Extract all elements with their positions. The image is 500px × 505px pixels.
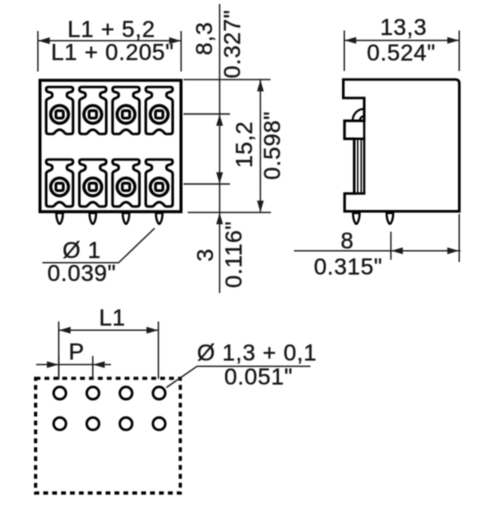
svg-text:L1 + 0.205": L1 + 0.205" — [51, 39, 174, 65]
side channel thin line 2 — [360, 140, 362, 193]
dimension L1+5,2 extension line left — [37, 31, 39, 72]
dimension 13,3 line — [344, 39, 459, 41]
terminal row1 pos4 — [146, 87, 173, 134]
arrow left of L1+5,2 — [38, 37, 50, 44]
arrow P pointing left — [93, 361, 105, 368]
dimension P extension right — [92, 356, 94, 380]
side pin 2 — [387, 213, 394, 224]
drill hole row2 pos2 — [87, 418, 99, 430]
leader line hole diameter — [166, 366, 310, 387]
svg-text:Ø 1,3 + 0,1: Ø 1,3 + 0,1 — [197, 339, 317, 365]
dimension 13,3 extension left — [343, 31, 345, 72]
drill hole row2 pos4 — [153, 418, 165, 430]
dimension L1 line — [59, 329, 159, 331]
dimension P extension left — [58, 355, 60, 380]
terminal row1 pos2 — [79, 87, 106, 134]
arrow right L1 — [147, 327, 159, 334]
arrow P pointing right — [47, 361, 59, 368]
dimension 8 line — [294, 250, 461, 252]
svg-text:8: 8 — [341, 227, 354, 253]
terminal row1 pos1 — [46, 87, 73, 134]
dimension 13,3 extension right — [458, 31, 460, 72]
dimension L1+5,2 extension line right — [180, 31, 182, 72]
dimension 8 extension pin — [390, 232, 392, 260]
pcb outline dashed — [36, 378, 181, 493]
dimension L1+5,2 line — [38, 40, 181, 42]
side pin 1 — [353, 213, 360, 224]
latch arc large — [353, 109, 365, 121]
arrow up to body bottom — [216, 213, 223, 225]
svg-text:0.116": 0.116" — [221, 221, 247, 288]
arrow left L1 — [59, 327, 71, 334]
dimension L1 extension right — [157, 322, 159, 379]
drill hole row1 pos4 — [153, 387, 165, 399]
solder pin 1 front — [56, 213, 63, 224]
terminal row2 pos3 — [113, 160, 140, 207]
terminal row2 pos2 — [79, 160, 106, 207]
svg-text:0.327": 0.327" — [219, 10, 245, 79]
svg-text:0.315": 0.315" — [314, 254, 383, 280]
terminal row1 pos3 — [113, 87, 140, 134]
svg-text:P: P — [69, 338, 85, 364]
drill hole row2 pos3 — [120, 418, 132, 430]
arrow down 15,2 — [257, 201, 264, 213]
arrow up 15,2 — [257, 80, 264, 92]
svg-text:0.039": 0.039" — [47, 260, 116, 286]
solder pin 4 front — [156, 213, 163, 224]
svg-text:0.598": 0.598" — [259, 111, 285, 180]
terminal row2 pos4 — [146, 160, 173, 207]
latch arc small — [360, 116, 364, 120]
side channel thin line 1 — [357, 140, 359, 193]
terminal row2 pos1 — [46, 160, 73, 207]
arrow right 13,3 — [447, 37, 459, 44]
upper tab bottom edge extension — [354, 138, 365, 140]
side inner wall line — [363, 121, 365, 194]
arrow left 8 — [391, 247, 403, 254]
arrow right of L1+5,2 — [169, 37, 181, 44]
leader line pin diameter — [42, 228, 154, 262]
extension line row2 center — [184, 183, 231, 185]
svg-text:0.051": 0.051" — [224, 364, 293, 390]
dimension 8,3 vertical line — [219, 4, 221, 293]
svg-text:15,2: 15,2 — [231, 121, 257, 168]
lower tab top edge extension — [354, 192, 365, 194]
svg-text:3: 3 — [192, 248, 218, 261]
dimension 15,2 vertical line — [259, 80, 261, 213]
connector body side view outline — [343, 80, 459, 212]
svg-text:13,3: 13,3 — [380, 14, 427, 40]
solder pin 3 front — [123, 213, 130, 224]
arrow up to row1 center — [216, 114, 223, 126]
solder pin 2 front — [90, 213, 97, 224]
extension line body bottom right — [188, 211, 271, 213]
svg-text:L1: L1 — [99, 304, 126, 330]
svg-text:8,3: 8,3 — [191, 22, 217, 55]
drill hole row1 pos3 — [120, 387, 132, 399]
extension line row1 center — [184, 113, 231, 115]
arrow left 13,3 — [345, 37, 357, 44]
arrow right 8 — [447, 247, 459, 254]
drill hole row1 pos1 — [54, 387, 66, 399]
dimension L1 extension left — [58, 322, 60, 379]
svg-text:0.524": 0.524" — [367, 40, 436, 66]
dimension 8 extension body edge — [458, 214, 460, 262]
drill hole row1 pos2 — [87, 387, 99, 399]
connector body front view — [40, 80, 181, 211]
extension line body top right — [184, 79, 271, 81]
dimension P line — [36, 364, 111, 366]
drill hole row2 pos1 — [54, 418, 66, 430]
arrow down to row2 center — [216, 172, 223, 184]
